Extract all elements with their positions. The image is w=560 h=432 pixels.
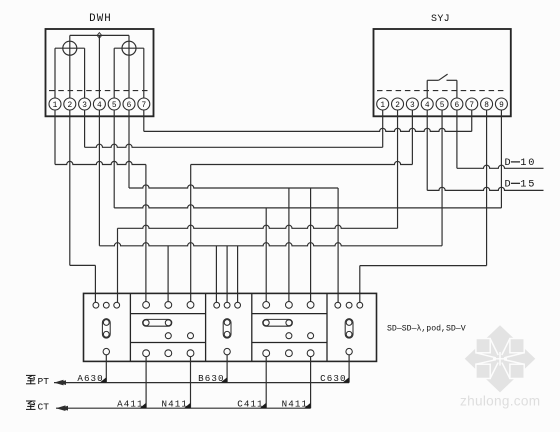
svg-text:C630: C630: [320, 373, 346, 384]
svg-text:4: 4: [425, 102, 430, 110]
svg-text:3: 3: [82, 102, 87, 110]
svg-text:4: 4: [97, 102, 102, 110]
svg-text:2: 2: [67, 102, 72, 110]
svg-text:SYJ: SYJ: [431, 14, 450, 25]
svg-text:D: D: [505, 179, 511, 191]
svg-text:6: 6: [127, 102, 132, 110]
svg-text:1: 1: [53, 102, 58, 110]
svg-text:9: 9: [499, 102, 504, 110]
svg-text:8: 8: [484, 102, 489, 110]
svg-text:A630: A630: [77, 373, 103, 384]
svg-text:2: 2: [395, 102, 400, 110]
svg-text:7: 7: [141, 102, 146, 110]
svg-text:N411: N411: [162, 398, 188, 409]
svg-text:N411: N411: [282, 398, 308, 409]
svg-text:C411: C411: [237, 398, 263, 409]
svg-text:DWH: DWH: [89, 13, 112, 25]
svg-text:6: 6: [455, 102, 460, 110]
svg-text:SD—SD—λ,pod,SD—V: SD—SD—λ,pod,SD—V: [387, 324, 466, 334]
svg-text:PT: PT: [38, 376, 50, 387]
svg-text:5: 5: [440, 102, 445, 110]
svg-text:B630: B630: [198, 373, 224, 384]
svg-text:15: 15: [520, 179, 536, 191]
svg-text:10: 10: [520, 157, 536, 169]
svg-text:5: 5: [112, 102, 117, 110]
svg-text:A411: A411: [117, 398, 143, 409]
svg-text:7: 7: [469, 102, 474, 110]
svg-text:CT: CT: [38, 401, 50, 412]
svg-text:zhulong.com: zhulong.com: [460, 394, 540, 409]
svg-text:D: D: [505, 157, 511, 169]
svg-text:1: 1: [380, 102, 385, 110]
svg-text:3: 3: [410, 102, 415, 110]
